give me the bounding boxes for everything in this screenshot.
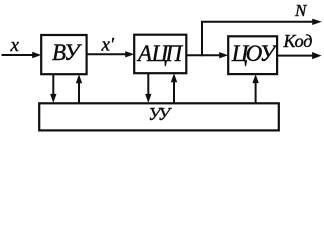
block VU (ВУ) xyxy=(41,35,86,74)
svg-text:N: N xyxy=(294,1,308,20)
block UU (УУ) xyxy=(39,103,279,130)
svg-text:Код: Код xyxy=(283,31,313,51)
wire Kod output from COU xyxy=(277,55,313,57)
svg-text:У: У xyxy=(260,41,278,66)
wire ACP down to UU xyxy=(147,73,149,95)
svg-text:У: У xyxy=(64,40,82,65)
svg-text:А: А xyxy=(136,41,153,66)
wire x' from VU to ACP xyxy=(87,53,126,55)
svg-text:П: П xyxy=(164,41,183,66)
svg-text:УУ: УУ xyxy=(148,104,172,124)
wire UU up to VU xyxy=(78,83,80,103)
wire VU down to UU xyxy=(52,74,54,95)
wire UU up to COU xyxy=(255,83,257,104)
wire UU up to ACP xyxy=(173,82,175,103)
wire N output to top right xyxy=(201,21,314,23)
wire input x into VU xyxy=(2,54,34,56)
svg-text:x′: x′ xyxy=(101,35,115,56)
block COU (ЦОУ) xyxy=(228,36,277,74)
node junction at x=202 xyxy=(201,22,203,56)
wire from ACP to COU xyxy=(186,54,220,56)
block ACP (АЦП) xyxy=(134,35,186,73)
svg-text:x: x xyxy=(10,35,20,56)
